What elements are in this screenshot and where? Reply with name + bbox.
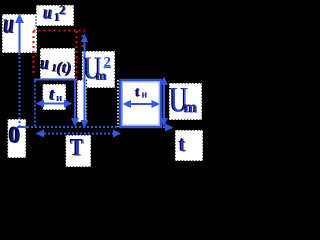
squared pulse red dotted right edge	[76, 31, 78, 86]
svg-text:u: u	[41, 53, 49, 74]
u axis vertical line	[19, 20, 21, 53]
label u1^2 text	[43, 2, 67, 24]
white strip behind Um^2 arrow	[77, 80, 87, 122]
label box t (x-axis label)	[175, 130, 203, 161]
svg-text:и: и	[56, 92, 63, 104]
white sliver behind pulse 2 left edge	[117, 80, 119, 127]
label box t_i (pulse 1)	[43, 84, 67, 110]
period arrow T (dotted, behind label boxes)	[36, 130, 122, 138]
label u1(t) text	[40, 52, 72, 77]
label Um text	[169, 79, 189, 120]
svg-text:2: 2	[60, 2, 67, 17]
svg-text:t: t	[180, 133, 186, 157]
pulse 2 rectangle	[121, 80, 162, 127]
t axis arrowhead	[165, 124, 174, 132]
svg-text:(t): (t)	[57, 60, 72, 77]
svg-text:m: m	[184, 100, 198, 117]
t_i duration arrow (pulse 1)	[36, 100, 73, 108]
svg-text:u: u	[4, 10, 15, 40]
pulse 1 rising edge (dotted)	[34, 81, 36, 127]
label box Um	[169, 83, 202, 120]
t_i duration arrow (pulse 2)	[123, 100, 161, 108]
t axis baseline	[17, 126, 27, 128]
red dots along Um^2 arrow top	[82, 35, 84, 48]
u axis arrowhead	[15, 14, 24, 24]
label 0 text	[8, 121, 21, 149]
label t text	[178, 133, 186, 157]
label box Um^2	[82, 51, 115, 88]
pulse 1 top edge (Um level)	[34, 79, 77, 81]
label box T	[66, 135, 92, 167]
svg-text:u: u	[44, 3, 53, 24]
label T text	[70, 134, 85, 161]
svg-text:T: T	[71, 135, 84, 162]
svg-text:и: и	[142, 90, 148, 101]
pulse 1 falling edge with down arrow	[74, 81, 76, 121]
svg-text:0: 0	[10, 121, 21, 148]
Um^2 amplitude double arrow	[81, 34, 89, 129]
axis label u	[3, 9, 15, 40]
Um amplitude double arrow	[160, 77, 168, 127]
squared pulse red dotted left edge	[33, 31, 35, 74]
label box 0 (origin)	[8, 119, 27, 158]
label t_i pulse2 text	[135, 85, 148, 101]
label box u (y-axis label)	[2, 14, 37, 53]
label t_i pulse1 text	[49, 85, 63, 105]
svg-text:t: t	[136, 85, 141, 100]
squared pulse u1^2 red dotted top	[34, 30, 86, 32]
label box u1^2	[36, 5, 74, 26]
label box u1(t)	[40, 48, 75, 79]
label Um^2 text	[83, 51, 103, 87]
